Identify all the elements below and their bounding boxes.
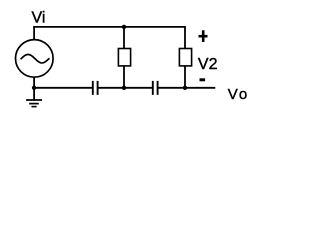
wire bottom segment C1 to C2 (99, 87, 153, 89)
wire source top stub (33, 27, 35, 40)
plus sign for V2 (199, 35, 208, 38)
ground bar 1 (26, 99, 42, 101)
wire bottom segment source to C1 (34, 87, 92, 89)
node junction dot bottom of R2 (183, 86, 187, 90)
resistor R2 (V2) (179, 49, 191, 66)
sine wave inside source (21, 54, 49, 63)
capacitor C2 right plate (157, 81, 159, 95)
ground bar 3 (32, 106, 37, 108)
capacitor C2 left plate (152, 81, 154, 95)
wire source bottom stub (33, 77, 35, 88)
wire R2 bottom stub (184, 66, 186, 88)
resistor R1 (118, 49, 130, 66)
node junction dot top of R1 (122, 25, 126, 29)
ground stub (33, 88, 35, 100)
wire R2 top stub (corner) (184, 27, 186, 49)
capacitor C1 right plate (97, 81, 99, 95)
wire top horizontal from source to R2 corner (33, 26, 186, 28)
voltage source V1 (16, 40, 54, 78)
svg-text:Vi: Vi (32, 10, 46, 27)
node junction dot bottom of R1 (122, 86, 126, 90)
svg-text:V2: V2 (198, 56, 218, 73)
wire R1 top stub (123, 27, 125, 49)
minus sign for V2 (200, 78, 206, 81)
capacitor C1 left plate (92, 81, 94, 95)
node junction dot at source bottom (32, 86, 36, 90)
svg-text:Vo: Vo (228, 86, 249, 103)
wire bottom segment C2 to output (159, 87, 216, 89)
ground bar 2 (29, 103, 39, 105)
wire R1 bottom stub (123, 66, 125, 88)
